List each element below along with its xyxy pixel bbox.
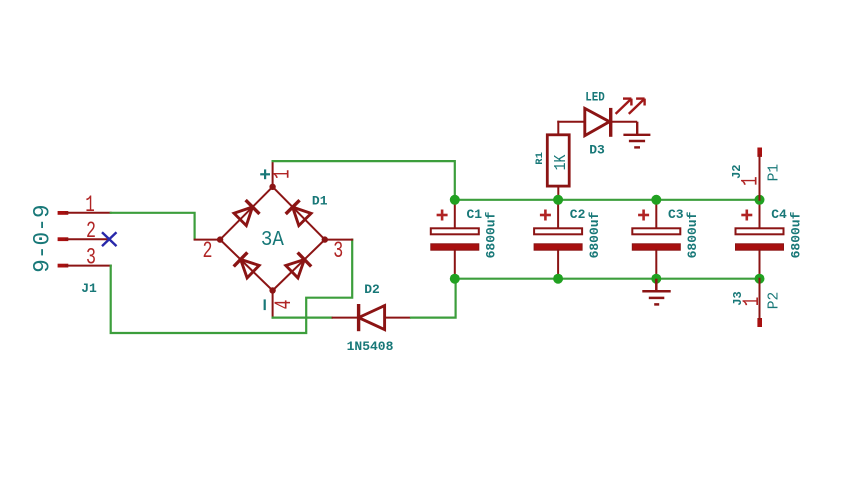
C3 plus mark (638, 210, 649, 221)
svg-text:D2: D2 (364, 282, 380, 297)
bridge node dot left (217, 236, 223, 242)
junction C4 bottom (755, 274, 765, 284)
J1 pin 2 number (86, 218, 96, 244)
junction C3 bottom (651, 274, 661, 284)
C3 reference label (668, 207, 684, 222)
junction C1 bottom (450, 274, 460, 284)
bridge node dot bottom (269, 287, 275, 293)
svg-text:9-0-9: 9-0-9 (30, 204, 56, 273)
C1 plus mark (437, 210, 448, 221)
no-connect flag on J1 pin 2 (102, 232, 117, 246)
LED arrow 2 (629, 99, 645, 114)
top rail wire (455, 199, 760, 201)
bridge pin 1 (+) (272, 161, 274, 187)
capacitor C2 (534, 200, 582, 279)
svg-text:J3: J3 (731, 291, 745, 305)
C4 value 6800uf (788, 211, 803, 258)
C3 value 6800uf (685, 211, 700, 258)
wire J1 pin1 to bridge pin2 (111, 213, 195, 239)
svg-text:6800uf: 6800uf (484, 211, 499, 258)
C1 value 6800uf (484, 211, 499, 258)
bridge pin 2 (195, 239, 221, 241)
LED label (585, 89, 605, 104)
bridge pin 1 name + (260, 169, 270, 179)
svg-text:P1: P1 (766, 164, 783, 182)
connector J2 pin 1 (757, 148, 762, 200)
svg-text:D3: D3 (589, 143, 605, 158)
connector J1 pin 3 (58, 264, 111, 268)
wire bridge + to C1 top (273, 161, 455, 200)
J3 reference label (731, 291, 745, 305)
bridge pin 1 number (270, 170, 296, 180)
D2 reference label (364, 282, 380, 297)
svg-text:6800uf: 6800uf (685, 211, 700, 258)
bottom rail wire (455, 278, 760, 280)
svg-text:P2: P2 (766, 292, 783, 310)
bridge pin 4 number (271, 300, 297, 310)
wire R1 to LED anode (558, 121, 585, 123)
svg-text:2: 2 (203, 238, 213, 264)
bridge reference D1 (312, 194, 328, 209)
bridge diode bottom-left (234, 252, 260, 278)
C4 plus mark (741, 210, 752, 221)
J2 reference label (730, 164, 744, 178)
C2 reference label (570, 207, 586, 222)
svg-text:D1: D1 (312, 194, 328, 209)
capacitor C1 (431, 200, 479, 279)
bridge pin 4 name - (264, 299, 266, 310)
J1 value 9-0-9 (30, 204, 56, 273)
J2 pin 1 number (738, 176, 764, 186)
connector J1 pin 1 (58, 211, 111, 215)
J3 value P2 (766, 292, 783, 310)
wire J1 pin3 to bridge pin3 (111, 240, 353, 333)
bridge diode top-left (234, 200, 260, 226)
R1 value 1K (552, 154, 571, 170)
junction C2 bottom (553, 274, 563, 284)
svg-text:6800uf: 6800uf (788, 211, 803, 258)
svg-text:1: 1 (85, 192, 95, 218)
ground at LED cathode (623, 122, 650, 148)
svg-text:3A: 3A (261, 228, 284, 252)
R1 reference label (534, 152, 546, 165)
LED D3 (585, 108, 637, 137)
diode D2 (332, 304, 411, 331)
svg-text:1K: 1K (552, 154, 571, 170)
bridge pin 3 number (333, 238, 343, 264)
LED arrow 1 (616, 99, 632, 114)
svg-text:4: 4 (271, 300, 297, 310)
bridge rectifier D1 body (diamond) (220, 187, 325, 291)
J3 pin 1 number (739, 297, 765, 307)
svg-text:R1: R1 (534, 152, 546, 165)
C4 reference label (771, 207, 787, 222)
bridge value 3A (261, 228, 284, 252)
svg-text:3: 3 (333, 238, 343, 264)
svg-text:C3: C3 (668, 207, 684, 222)
bridge node dot right (322, 236, 328, 242)
svg-text:LED: LED (585, 89, 605, 104)
resistor R1 (547, 122, 569, 200)
svg-text:1N5408: 1N5408 (347, 339, 394, 354)
junction C4 top (755, 195, 765, 205)
D2 value 1N5408 (347, 339, 394, 354)
capacitor C4 (736, 200, 784, 279)
J1 pin 1 number (85, 192, 95, 218)
junction C3 top (651, 195, 661, 205)
junction C1 top (450, 195, 460, 205)
svg-text:3: 3 (86, 245, 96, 271)
D3 reference label (589, 143, 605, 158)
svg-text:C4: C4 (771, 207, 787, 222)
svg-text:J2: J2 (730, 164, 744, 178)
bridge pin 2 number (203, 238, 213, 264)
bridge diode bottom-right (286, 253, 311, 278)
svg-text:6800uf: 6800uf (587, 211, 602, 258)
ground at C3 bottom (642, 279, 670, 305)
connector J1 pin 2 (58, 237, 110, 241)
wire D2 to bottom rail (411, 279, 456, 318)
svg-text:1: 1 (270, 170, 296, 180)
C2 plus mark (540, 210, 551, 221)
C2 value 6800uf (587, 211, 602, 258)
J2 value P1 (766, 164, 783, 182)
junction C2 top (553, 195, 563, 205)
J1 pin 3 number (86, 245, 96, 271)
svg-text:J1: J1 (81, 281, 97, 296)
bridge diode top-right (286, 200, 311, 225)
C1 reference label (466, 207, 482, 222)
svg-text:C1: C1 (466, 207, 482, 222)
bridge pin 3 (325, 239, 352, 241)
connector J3 pin 1 (757, 279, 762, 327)
wire bridge - to D2 (273, 317, 332, 319)
svg-text:C2: C2 (570, 207, 586, 222)
capacitor C3 (632, 200, 680, 279)
J1 reference label (81, 281, 97, 296)
svg-text:2: 2 (86, 218, 96, 244)
bridge node dot top (269, 184, 275, 190)
bridge pin 4 (-) (272, 291, 274, 318)
